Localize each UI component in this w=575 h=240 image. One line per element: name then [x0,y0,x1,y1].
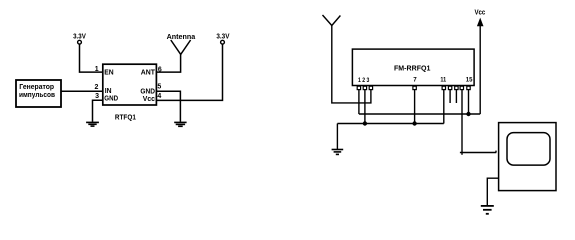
wire pin 11 down to ground rail [443,90,445,124]
wire pin 4 Vcc to 3.3V terminal [156,44,222,100]
pin 7 pad [413,86,416,89]
svg-text:2: 2 [94,84,98,91]
wire Vcc vertical riser [479,25,481,114]
ground (left IC pin 5) [174,122,186,126]
svg-text:3: 3 [95,93,99,100]
svg-text:1: 1 [95,66,99,73]
wire oscilloscope to ground [487,178,498,205]
svg-text:FM-RRFQ1: FM-RRFQ1 [394,63,430,72]
ground (left IC pin 3) [86,122,99,126]
svg-text:1 2 3: 1 2 3 [358,77,370,84]
pin 12 pad [448,86,451,89]
svg-text:Vcc: Vcc [474,10,485,17]
svg-text:5: 5 [157,84,161,91]
wire Vcc rail horizontal (line A) [359,113,480,115]
power terminal 3.3V (left) [73,34,86,44]
oscilloscope body [499,123,556,191]
svg-text:7: 7 [413,76,417,83]
ground (oscilloscope) [481,206,494,214]
pin 15 pad [467,86,470,89]
wire pin 2 down to ground rail [364,90,366,124]
svg-text:GND: GND [104,94,118,103]
pin 2 pad [363,86,366,89]
wire pin 12 stub (NC) [449,90,451,103]
svg-text:ANT: ANT [141,67,156,76]
pin 14 pad [460,86,463,89]
junction pin 2 / ground rail [363,121,367,125]
wire pin 5 GND down to ground [156,91,180,121]
svg-text:4: 4 [157,93,161,100]
svg-text:Vcc: Vcc [143,94,155,103]
power Vcc arrow [474,10,485,27]
pin 13 pad [455,86,458,89]
antenna ANT1 [167,34,196,55]
pin 11 pad [442,86,445,89]
svg-text:RTFQ1: RTFQ1 [115,112,136,121]
receiver IC U3 FM-RRFQ1 body [352,49,474,85]
wire ground rail horizontal (line B) [337,123,443,125]
wire generator output to pin 2 IN [61,90,103,92]
op IC U1 RTFQ1 body [103,64,157,105]
junction pin 7 / ground rail [412,121,416,125]
generator box U2 "Генератор импульсов" [16,80,61,107]
wire pin 7 down to ground rail [414,90,416,124]
antenna ANT2 (receiver) [323,15,341,26]
wire pin 3 GND down to ground [93,100,103,122]
wire ground rail down to ground [336,124,338,150]
svg-text:Antenna: Antenna [167,34,196,41]
svg-text:15: 15 [466,77,473,84]
pin 3 pad [369,86,372,89]
wire to oscilloscope input [460,151,496,153]
wire pin 15 down to Vcc rail [468,90,470,114]
wire pin 14 down to scope [461,90,463,155]
ground (receiver rail) [332,150,344,155]
wire pin 1 down to Vcc rail [358,90,360,114]
power terminal 3.3V (right) [216,34,229,44]
svg-text:11: 11 [440,76,446,83]
svg-text:импульсов: импульсов [19,90,55,99]
svg-text:3.3V: 3.3V [216,34,229,41]
wire antenna to pin 3 of U3 [332,26,371,103]
pin 1 pad [357,86,360,89]
svg-text:EN: EN [104,67,113,76]
wire pin 6 ANT to antenna [156,54,180,72]
wire pin 13 stub (NC) [455,90,457,103]
junction pin 15 / Vcc rail [466,112,470,116]
wire 3.3V to pin 1 EN [80,44,103,72]
